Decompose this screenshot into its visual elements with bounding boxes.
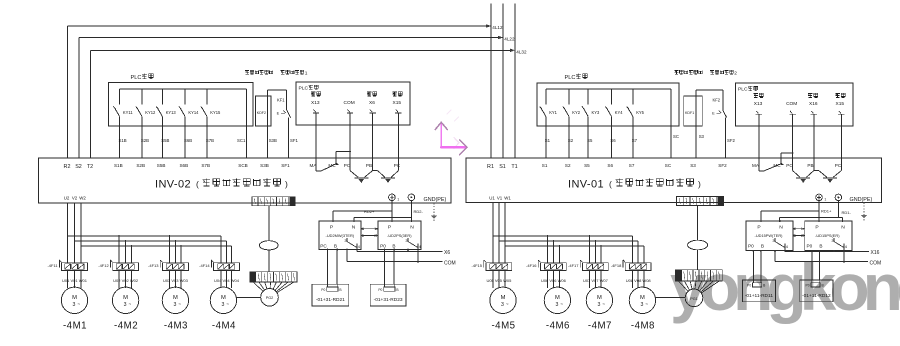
svg-text:M: M [123,295,128,301]
svg-text:S2: S2 [568,138,574,143]
svg-text:S3B: S3B [260,163,269,168]
svg-text:INV-01: INV-01 [568,179,604,191]
svg-text:PC: PC [320,243,327,248]
svg-text:S3B: S3B [269,138,277,143]
svg-text:KF2: KF2 [713,98,721,103]
svg-text:S6B: S6B [184,138,192,143]
svg-text:N: N [779,225,783,231]
svg-text:W2: W2 [79,195,86,200]
svg-text:-4F14: -4F14 [199,263,210,268]
svg-text:KY5: KY5 [636,110,644,115]
svg-text:S6: S6 [607,163,613,168]
svg-text:X16: X16 [871,250,880,256]
svg-text:COM: COM [786,101,797,107]
svg-text:U1: U1 [489,195,495,200]
svg-text:P0: P0 [321,288,325,292]
svg-text:3: 3 [555,302,558,308]
svg-text:~: ~ [178,301,181,306]
svg-text:PC: PC [394,163,401,168]
svg-text:4: 4 [845,244,848,249]
svg-text:(: ( [609,179,612,189]
svg-text:3: 3 [772,238,774,243]
svg-text:-01+31-RD21: -01+31-RD21 [316,297,345,303]
svg-text:~: ~ [128,301,131,306]
svg-text:N: N [841,225,845,231]
svg-text:U04 V04 W04: U04 V04 W04 [214,278,240,283]
svg-text:S2: S2 [565,163,571,168]
svg-text:V1: V1 [497,195,503,200]
svg-text:N: N [410,225,414,231]
svg-text:R1: R1 [487,164,494,170]
svg-text:U02 V02 W02: U02 V02 W02 [113,278,139,283]
svg-text:SF1: SF1 [290,138,298,143]
svg-text:1: 1 [305,70,308,76]
svg-text:P: P [388,225,391,231]
svg-text:S5B: S5B [161,138,169,143]
svg-text:-01+11-RD11: -01+11-RD11 [745,293,774,299]
svg-text:KY4: KY4 [615,110,623,115]
svg-text:S1: S1 [499,164,506,170]
svg-text:S1B: S1B [119,138,127,143]
svg-text:1: 1 [824,198,826,202]
svg-text:X6: X6 [444,250,450,256]
svg-text:U08 V08 W08: U08 V08 W08 [626,278,652,283]
svg-text:-UD2MW(3TER): -UD2MW(3TER) [326,233,355,238]
svg-text:-4F11: -4F11 [47,263,58,268]
svg-text:-4M6: -4M6 [546,321,570,332]
svg-text:S7B: S7B [201,163,210,168]
svg-text:SC: SC [673,134,679,139]
svg-text:E: E [712,111,715,116]
svg-text:3: 3 [124,302,127,308]
svg-text:3: 3 [73,302,76,308]
svg-text:S7: S7 [632,138,638,143]
svg-text:M: M [597,295,602,301]
svg-text:S2: S2 [75,164,82,170]
svg-text:KY14: KY14 [188,110,199,115]
svg-text:-4M4: -4M4 [212,321,236,332]
svg-text:M: M [501,295,506,301]
svg-text:-UD15PW(TER): -UD15PW(TER) [755,233,784,238]
svg-text:KY3: KY3 [592,110,600,115]
svg-text:S3: S3 [699,134,705,139]
svg-text:S7: S7 [629,163,635,168]
svg-text:M: M [221,295,226,301]
svg-text:S5B: S5B [157,163,166,168]
svg-text:): ) [698,179,701,189]
svg-text:-4F18: -4F18 [611,263,622,268]
svg-text:-4F15: -4F15 [472,263,483,268]
svg-text:X16: X16 [809,101,818,107]
svg-text:S1B: S1B [114,163,123,168]
svg-text:U05 V05 W05: U05 V05 W05 [486,278,512,283]
svg-text:COM: COM [344,100,355,106]
svg-text:PLC: PLC [738,87,748,93]
svg-text:S5: S5 [587,138,593,143]
svg-text:W1: W1 [504,195,511,200]
svg-text:-4M1: -4M1 [63,321,87,332]
svg-text:X13: X13 [754,101,763,107]
svg-text:B: B [334,243,337,248]
svg-text:RD1-: RD1- [842,210,852,215]
svg-text:U03 V03 W03: U03 V03 W03 [163,278,189,283]
svg-text:KY1: KY1 [549,110,557,115]
svg-text:S1: S1 [545,138,551,143]
svg-text:S6B: S6B [179,163,188,168]
svg-text:~: ~ [560,301,563,306]
svg-text:(: ( [196,179,199,189]
svg-text:KY13: KY13 [166,110,177,115]
svg-text:~: ~ [226,301,229,306]
svg-text:X15: X15 [836,101,845,107]
svg-text:PLC: PLC [131,75,142,81]
svg-text:~: ~ [645,301,648,306]
svg-text:KDF1: KDF1 [685,111,694,115]
svg-text:4: 4 [786,244,789,249]
svg-text:1: 1 [397,198,399,202]
svg-text:~: ~ [602,301,605,306]
svg-text:RD1+: RD1+ [821,209,832,214]
svg-text:PG1: PG1 [690,297,698,301]
svg-text:PLC: PLC [299,85,309,91]
svg-text:COM: COM [444,260,456,266]
svg-text:2: 2 [734,70,737,76]
svg-text:B: B [339,288,342,292]
svg-text:S6: S6 [610,138,616,143]
svg-text:-4F13: -4F13 [148,263,159,268]
svg-text:-4M7: -4M7 [588,321,612,332]
svg-text:-4M5: -4M5 [491,321,515,332]
svg-text:-01+11-RD12: -01+11-RD12 [802,293,831,299]
svg-text:U2: U2 [64,195,70,200]
svg-text:4L32: 4L32 [516,50,527,55]
svg-text:B: B [396,288,399,292]
svg-text:KY15: KY15 [210,110,221,115]
svg-text:INV-02: INV-02 [155,179,191,191]
svg-text:-UD2PS(3ER): -UD2PS(3ER) [387,233,412,238]
svg-text:3: 3 [173,302,176,308]
svg-text:4L22: 4L22 [504,37,515,42]
svg-text:RD2-: RD2- [414,209,424,214]
svg-text:-01+31-RD23: -01+31-RD23 [374,297,403,303]
svg-text:P: P [757,225,760,231]
svg-text:~: ~ [77,301,80,306]
svg-text:PLC: PLC [565,75,576,81]
svg-text:KF1: KF1 [277,98,285,103]
svg-text:S7B: S7B [206,138,214,143]
svg-text:4: 4 [358,244,361,249]
svg-text:3: 3 [405,238,407,243]
svg-text:3: 3 [344,238,346,243]
svg-text:X13: X13 [311,100,320,106]
svg-text:T2: T2 [87,164,93,170]
svg-text:P0: P0 [806,284,810,288]
svg-text:-4F12: -4F12 [98,263,109,268]
svg-text:-4F16: -4F16 [526,263,537,268]
svg-text:P0: P0 [807,243,813,248]
svg-text:B: B [761,243,764,248]
svg-text:SC: SC [665,163,672,168]
svg-text:GND(PE): GND(PE) [850,197,873,203]
svg-text:U01 V01 W01: U01 V01 W01 [62,278,88,283]
svg-text:PB: PB [366,163,372,168]
svg-text:COM: COM [870,260,882,266]
svg-text:GND(PE): GND(PE) [424,197,447,203]
svg-text:P0: P0 [378,288,382,292]
svg-text:SC1: SC1 [237,138,246,143]
svg-text:RD2+: RD2+ [364,209,375,214]
svg-text:S2B: S2B [141,138,149,143]
svg-text:S5: S5 [584,163,590,168]
svg-text:V2: V2 [72,195,78,200]
svg-text:X6: X6 [369,100,375,106]
svg-text:3: 3 [221,302,224,308]
svg-text:): ) [285,179,288,189]
svg-text:P: P [815,225,818,231]
svg-text:M: M [72,295,77,301]
svg-text:P: P [330,225,333,231]
svg-text:SF2: SF2 [718,163,727,168]
svg-text:-4M3: -4M3 [164,321,188,332]
svg-text:KY12: KY12 [145,110,156,115]
svg-text:4L12: 4L12 [492,25,503,30]
svg-text:SCB: SCB [238,163,247,168]
svg-text:B: B [392,243,395,248]
svg-text:3: 3 [501,302,504,308]
svg-text:PB: PB [807,163,813,168]
svg-text:S2B: S2B [136,163,145,168]
svg-text:-4M8: -4M8 [631,321,655,332]
svg-text:PC: PC [835,163,842,168]
svg-text:KY11: KY11 [123,110,133,115]
svg-text:U07 V07 W07: U07 V07 W07 [583,278,609,283]
svg-text:X15: X15 [393,100,402,106]
svg-text:yongkong: yongkong [670,250,900,324]
svg-text:S3: S3 [690,163,696,168]
svg-text:N: N [352,225,356,231]
svg-text:M: M [173,295,178,301]
svg-text:-4M2: -4M2 [114,321,138,332]
svg-text:E: E [277,111,280,116]
svg-text:3: 3 [597,302,600,308]
svg-text:SF1: SF1 [281,163,290,168]
svg-text:3: 3 [831,238,833,243]
svg-text:PG2: PG2 [266,296,274,300]
svg-text:P0: P0 [747,284,751,288]
svg-text:B: B [819,243,822,248]
svg-text:SF2: SF2 [727,138,735,143]
svg-text:R2: R2 [64,164,71,170]
svg-text:P0: P0 [380,243,386,248]
svg-text:-4F17: -4F17 [568,263,579,268]
svg-text:M: M [640,295,645,301]
svg-text:T1: T1 [511,164,517,170]
svg-text:~: ~ [506,301,509,306]
svg-text:-UD15PS(ER): -UD15PS(ER) [815,233,840,238]
svg-text:S1: S1 [542,163,548,168]
svg-text:M: M [555,295,560,301]
svg-text:KY2: KY2 [572,110,580,115]
svg-text:3: 3 [640,302,643,308]
svg-text:KDF2: KDF2 [257,111,266,115]
svg-text:U06 V06 W06: U06 V06 W06 [541,278,567,283]
svg-text:P0: P0 [748,243,754,248]
